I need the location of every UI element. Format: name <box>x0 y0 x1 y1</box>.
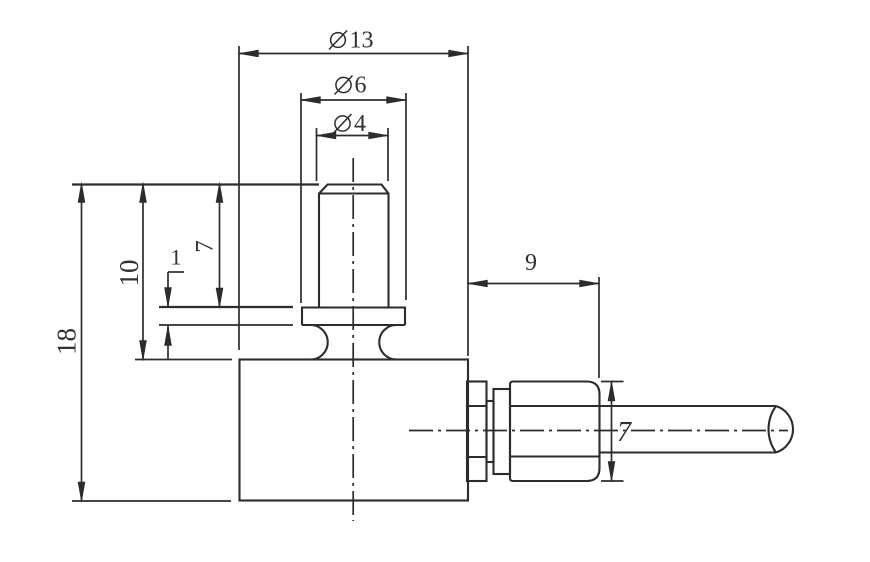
dimension 9 line with arrows <box>466 280 601 288</box>
dimension 10 label <box>114 260 144 287</box>
groove fillet right <box>379 325 396 360</box>
dimension Ø4 extension line right <box>387 128 389 181</box>
nut <box>510 382 600 482</box>
svg-text:1: 1 <box>170 245 181 270</box>
neck <box>487 401 494 462</box>
dimension 18 line with arrows <box>78 181 86 503</box>
svg-text:6: 6 <box>355 73 367 99</box>
dimension 1 label <box>170 245 181 270</box>
dimension Ø4 label <box>334 111 367 137</box>
dimension 7 nut extension tick bottom <box>601 480 624 482</box>
dimension Ø4 line with arrows <box>315 132 390 140</box>
probe tip <box>769 406 793 453</box>
main body <box>240 360 469 501</box>
dimension Ø6 extension line left <box>300 93 302 303</box>
svg-text:18: 18 <box>52 328 82 355</box>
dimension 7 line with arrows <box>216 181 224 309</box>
dimension 7 nut label <box>617 417 632 448</box>
dimension 18 label <box>52 328 82 355</box>
dimension Ø6 label <box>335 73 367 99</box>
washer <box>467 382 487 482</box>
stem (Ø4 plunger) <box>319 185 389 308</box>
dimension Ø13 extension line left <box>238 46 240 350</box>
probe <box>600 406 777 453</box>
dimension 18 bottom reference line <box>72 500 231 502</box>
dimension Ø13 label <box>329 28 374 54</box>
groove fillet left <box>311 325 328 360</box>
dimension 10 line with arrows <box>139 181 147 362</box>
flange top extension line <box>159 306 293 308</box>
dimension 7 label <box>192 240 219 253</box>
svg-text:13: 13 <box>350 28 374 54</box>
dimension 10 bottom reference line <box>135 359 232 361</box>
dimension Ø6 extension line right <box>405 93 407 300</box>
dimension 1 leader and arrows <box>164 272 184 360</box>
ferrule <box>494 389 511 474</box>
vertical centerline <box>352 158 354 521</box>
dimension Ø6 line with arrows <box>299 96 408 104</box>
top reference line (part top) <box>72 183 319 185</box>
svg-text:9: 9 <box>525 250 537 276</box>
svg-text:10: 10 <box>114 260 144 287</box>
flange (Ø6 collar) <box>302 308 405 326</box>
dimension 7 nut extension tick top <box>601 381 624 383</box>
dimension Ø4 extension line left <box>316 128 318 181</box>
svg-text:7: 7 <box>617 417 632 448</box>
svg-text:4: 4 <box>354 111 366 137</box>
dimension 9 label <box>525 250 537 276</box>
dimension 9 right extension line <box>598 277 600 378</box>
horizontal centerline <box>409 430 788 432</box>
dimension Ø13 extension line right <box>467 46 469 356</box>
svg-text:7: 7 <box>192 240 219 253</box>
dimension 7 nut line with arrows <box>608 380 616 483</box>
flange bottom extension line <box>159 324 293 326</box>
dimension Ø13 line with arrows <box>237 50 470 58</box>
